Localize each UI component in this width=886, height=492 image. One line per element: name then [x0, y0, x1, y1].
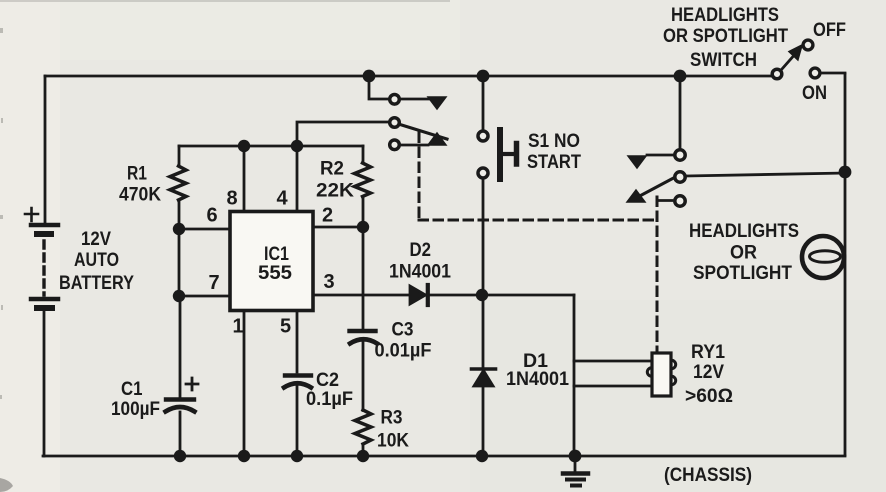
svg-text:7: 7	[209, 272, 220, 294]
svg-text:C3: C3	[392, 320, 414, 341]
node bottom D1	[476, 450, 488, 462]
svg-text:S1 NO: S1 NO	[528, 131, 580, 152]
lamp headlights/spotlight	[802, 236, 844, 278]
wire R2 bottom to C3	[362, 227, 365, 329]
node right rail / lamp	[839, 166, 852, 179]
node pin3 S1 D1	[476, 289, 488, 301]
svg-text:8: 8	[227, 188, 238, 210]
svg-text:SPOTLIGHT: SPOTLIGHT	[693, 263, 792, 284]
resistor R2 22K	[355, 146, 371, 227]
svg-text:1N4001: 1N4001	[389, 262, 451, 283]
ground (chassis)	[563, 456, 588, 486]
node bottom C2	[291, 450, 303, 462]
svg-text:R3: R3	[381, 408, 403, 429]
wire bottom rail	[43, 455, 845, 458]
svg-text:12V: 12V	[693, 362, 724, 383]
svg-text:OR: OR	[730, 243, 757, 264]
diode D1 1N4001	[472, 369, 496, 456]
wire pin4	[296, 146, 299, 211]
wire pin6	[179, 228, 230, 231]
battery B1 12V	[25, 208, 58, 308]
svg-text:C1: C1	[121, 379, 143, 400]
wire right rail	[844, 74, 847, 455]
wire S1 to pin3 node	[482, 180, 485, 296]
svg-text:OFF: OFF	[813, 20, 846, 41]
wire pin1	[243, 311, 246, 456]
wire S1 branch top	[482, 76, 485, 130]
svg-text:HEADLIGHTS: HEADLIGHTS	[689, 221, 799, 242]
resistor R3 10K	[355, 410, 371, 456]
wire top rail	[45, 75, 771, 78]
node pin8 rail	[238, 140, 250, 152]
svg-text:(CHASSIS): (CHASSIS)	[664, 465, 752, 486]
svg-text:2: 2	[322, 205, 333, 227]
node bottom C1	[174, 450, 186, 462]
node bottom pin1	[238, 450, 250, 462]
svg-text:>60Ω: >60Ω	[685, 386, 733, 407]
dashed mechanical link	[419, 133, 657, 351]
node pin2 R2 C3	[357, 221, 369, 233]
relay coil RY1 12V >60ohm	[647, 353, 675, 396]
svg-text:OR SPOTLIGHT: OR SPOTLIGHT	[663, 26, 788, 47]
IC U1 555	[230, 212, 313, 311]
svg-text:ON: ON	[802, 83, 827, 104]
svg-text:12V: 12V	[81, 229, 111, 250]
wire left rail lower	[43, 311, 46, 456]
wire pin5	[296, 311, 299, 372]
svg-text:RY1: RY1	[691, 342, 725, 363]
svg-text:R2: R2	[320, 159, 344, 180]
wire pin3 output	[313, 294, 574, 297]
svg-text:10K: 10K	[377, 431, 409, 452]
resistor R1 470K	[170, 146, 186, 229]
node top rail / S1	[477, 70, 490, 83]
wire pin2	[313, 226, 363, 229]
relay contact K1a (left)	[297, 76, 447, 150]
svg-text:4: 4	[277, 188, 289, 210]
svg-text:0.01µF: 0.01µF	[375, 341, 432, 362]
svg-text:100µF: 100µF	[111, 399, 160, 420]
svg-text:3: 3	[324, 271, 335, 293]
wire pin7	[179, 295, 230, 298]
svg-text:5: 5	[280, 316, 291, 338]
svg-text:D2: D2	[410, 240, 432, 261]
wire relay coil bottom lead	[574, 385, 652, 388]
wire pin3 node to D1	[482, 295, 485, 368]
relay contact K1b (right)	[627, 76, 845, 206]
svg-text:1: 1	[233, 316, 244, 338]
svg-text:IC1: IC1	[264, 244, 289, 265]
svg-text:0.1µF: 0.1µF	[306, 389, 353, 410]
wire left rail upper	[44, 76, 47, 223]
node pin4 rail	[291, 140, 303, 152]
svg-text:SWITCH: SWITCH	[690, 50, 757, 71]
wire V+ sub-rail above IC	[179, 145, 363, 148]
capacitor C1 100uF	[166, 296, 199, 456]
capacitor C2 0.1uF	[284, 376, 311, 457]
wire pin3 node corner down to relay coil	[573, 295, 576, 455]
svg-text:C2: C2	[316, 370, 339, 391]
node top rail / contact A	[363, 70, 376, 83]
svg-text:470K: 470K	[119, 185, 161, 206]
node pin6 R1	[173, 223, 185, 235]
svg-text:22K: 22K	[316, 181, 354, 202]
svg-text:HEADLIGHTS: HEADLIGHTS	[671, 5, 779, 26]
wire R1 to pin7 node	[178, 229, 181, 296]
switch S2 headlights OFF/ON	[772, 40, 845, 79]
svg-text:START: START	[527, 152, 581, 173]
node pin7 C1	[173, 290, 185, 302]
switch S1 NO START pushbutton	[478, 130, 517, 179]
svg-text:555: 555	[258, 263, 292, 284]
svg-text:6: 6	[207, 205, 218, 227]
wire relay coil top lead	[574, 360, 652, 363]
wire pin8	[243, 146, 246, 211]
svg-text:BATTERY: BATTERY	[59, 273, 134, 294]
svg-text:R1: R1	[127, 164, 147, 185]
node top rail / contact B	[674, 70, 687, 83]
node bottom R3	[357, 450, 369, 462]
capacitor C3 0.01uF	[350, 331, 378, 411]
svg-text:AUTO: AUTO	[74, 250, 119, 271]
diode D2 1N4001	[410, 285, 428, 305]
svg-text:1N4001: 1N4001	[506, 369, 569, 390]
node bottom ground	[569, 450, 582, 463]
